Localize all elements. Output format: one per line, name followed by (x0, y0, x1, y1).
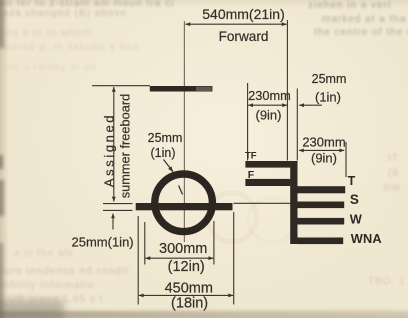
svg-text:S: S (350, 192, 359, 207)
assigned freeboard dimension line (113, 87, 115, 202)
25mm grid-bar width extension (296, 89, 298, 161)
svg-text:summer freeboard: summer freeboard (118, 94, 133, 199)
ring thickness callout arrow (164, 160, 174, 172)
load line disc horizontal bar (136, 203, 233, 210)
deck line extension (thin) (92, 85, 150, 87)
left edge smudge lower (0, 243, 3, 318)
dimension 300mm right extension (213, 221, 215, 265)
svg-text:Forward: Forward (219, 29, 269, 44)
svg-text:300mm: 300mm (159, 241, 207, 257)
dimension 230mm (left) arrow line (248, 104, 287, 106)
dimension 450mm arrow line (139, 294, 233, 296)
F bar (245, 179, 290, 186)
dimension 230mm (left) extension (247, 83, 249, 161)
svg-text:WNA: WNA (351, 231, 382, 246)
ghost print bleed-through top-left (0, 0, 174, 9)
TF bar (245, 161, 290, 168)
grid vertical bar (290, 161, 297, 244)
svg-text:Assigned: Assigned (102, 113, 117, 187)
ghost print right edge (388, 153, 399, 164)
25mm leader arrow pointing left (299, 104, 322, 106)
centre line (vertical through disc) (183, 21, 185, 242)
ring thickness callout stub inside ring (179, 186, 183, 195)
W bar (298, 218, 345, 225)
tick lower (disc bar bottom) (103, 209, 133, 211)
deck line bar (150, 86, 213, 92)
svg-text:F: F (248, 169, 255, 181)
svg-text:(9in): (9in) (311, 151, 337, 166)
dimension 300mm left extension (144, 222, 146, 265)
bottom-left corner shadow (0, 300, 64, 318)
T bar (298, 186, 346, 193)
ghost print bleed-through top-right (308, 0, 392, 11)
svg-text:(12in): (12in) (168, 259, 205, 275)
25mm stub arrow below bar (112, 214, 114, 230)
svg-text:230mm: 230mm (302, 135, 345, 150)
WNA bar (298, 238, 344, 245)
tick upper (disc bar top) (103, 203, 133, 205)
dimension 450mm left extension (137, 216, 139, 305)
svg-text:(1in): (1in) (150, 146, 175, 160)
svg-text:25mm: 25mm (148, 131, 183, 145)
svg-text:25mm: 25mm (312, 72, 347, 86)
svg-text:(1in): (1in) (315, 90, 341, 105)
bottom edge band (0, 311, 408, 318)
extension line right of 540mm (286, 20, 288, 161)
dimension 300mm arrow line (145, 257, 213, 259)
svg-text:T: T (348, 174, 356, 188)
dimension 230mm (right) arrow line (299, 149, 344, 151)
svg-text:TF: TF (245, 151, 257, 162)
svg-text:540mm(21in): 540mm(21in) (202, 6, 284, 22)
dimension 540mm arrow line (185, 23, 286, 25)
load line disc (ring) (155, 174, 213, 232)
left edge smudge upper (0, 0, 4, 48)
svg-text:450mm: 450mm (165, 281, 213, 297)
S bar (298, 202, 345, 209)
ghost print bottom-left (14, 248, 74, 259)
left edge smudge middle (0, 155, 3, 169)
dimension 450mm right extension (233, 212, 235, 305)
svg-text:W: W (350, 212, 363, 227)
svg-text:230mm: 230mm (248, 88, 291, 103)
summer level thin line from disc to grid (234, 202, 291, 204)
faint ghost ring echo right of circle (205, 190, 259, 244)
svg-text:(18in): (18in) (171, 296, 208, 312)
svg-text:(9in): (9in) (255, 107, 281, 122)
dimension 230mm (right) right extension (345, 142, 347, 177)
svg-text:25mm(1in): 25mm(1in) (72, 235, 134, 250)
